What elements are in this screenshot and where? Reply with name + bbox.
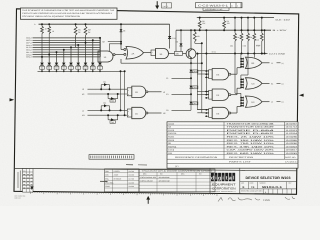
gate E4 (diode NAND): [197, 89, 231, 100]
input diode D2 tap: [47, 54, 52, 73]
diode D17 branch: [190, 94, 198, 110]
left fold-mark arrow: [10, 98, 15, 101]
wire 2A out to 3A: [144, 52, 152, 54]
gate E3 (diode NAND): [197, 69, 231, 80]
wire W1 emitter bus: [121, 59, 202, 63]
input diode D5 tap: [69, 46, 74, 72]
resistor R7 3.9K: [243, 17, 250, 55]
node +10V rail (right): [176, 29, 288, 32]
resistor R3 15K: [198, 17, 206, 32]
top fold-mark arrow: [155, 1, 159, 9]
diode D14 bypass: [100, 102, 110, 112]
input wire M1: [82, 114, 127, 117]
output wire L1: [262, 101, 284, 104]
wire vertical V5: [205, 29, 208, 94]
gate 1B (diode NAND): [127, 86, 148, 97]
gate 1A (diode NAND): [98, 51, 115, 62]
input wire E1: [166, 93, 192, 96]
handwritten note: [218, 197, 295, 203]
resistor R4 15K: [223, 17, 231, 32]
wire feed gate D3 cluster: [235, 54, 241, 98]
gate D3 (diode OR): [240, 96, 262, 107]
output wire N2: [148, 112, 165, 115]
wire 3A out to R9: [169, 52, 175, 54]
input wire L1: [82, 109, 127, 112]
junction dot GND: [261, 53, 263, 55]
gate 3A (diode NAND): [151, 49, 169, 59]
title block band: [14, 168, 297, 170]
wire Q1 collector to +10V: [190, 29, 192, 49]
input diode D7 tap: [83, 42, 88, 73]
input diode D6 tap: [76, 44, 81, 72]
contact strip caption: [126, 164, 147, 166]
margin scale ticks: [31, 191, 217, 196]
wire R9 to Q1 base: [183, 52, 187, 54]
parts list table: [167, 122, 298, 168]
wire Q1 emitter to W1: [190, 58, 192, 64]
wire vertical V3: [196, 53, 208, 110]
node +10V rail (upper left): [34, 23, 169, 26]
wire feed gate B3 cluster: [240, 54, 242, 59]
check mark: [100, 180, 108, 182]
wire vertical V2: [124, 70, 126, 116]
resistor R5 680: [230, 17, 236, 55]
input diode D4 tap: [61, 49, 66, 72]
wire 1A out to 2A in: [115, 54, 124, 56]
drafting sign-off block: [105, 169, 140, 192]
bus line pin labels: [26, 37, 32, 59]
sheet border frame: [14, 9, 299, 195]
wire E5 output: [231, 107, 241, 114]
resistor R12: [41, 23, 48, 57]
output wire L2: [148, 91, 165, 94]
input wire D1: [166, 109, 191, 112]
diode D16 bypass: [107, 93, 119, 103]
diode D13 bypass: [100, 80, 110, 90]
resistor R1: [74, 23, 81, 47]
diode D8: [120, 29, 126, 32]
diode D11 branch: [190, 78, 198, 94]
input wire F1: [166, 77, 192, 80]
wire common input bus W2: [38, 70, 125, 72]
title text block: [240, 169, 297, 194]
test point label: [212, 50, 217, 53]
input diode D3 tap: [54, 51, 59, 72]
gate B3 (diode OR): [240, 57, 262, 68]
gate E5 (diode NAND): [197, 107, 231, 118]
input diode D8 tap: [90, 39, 95, 72]
diode D12 feed: [168, 24, 176, 48]
input wire J2: [82, 88, 127, 91]
resistor R11: [193, 29, 201, 43]
diode D15 bypass: [107, 114, 119, 124]
resistor R2: [84, 23, 91, 42]
resistor R13: [48, 23, 55, 54]
margin vertical caption: [18, 171, 20, 191]
wire vertical V4: [201, 42, 209, 113]
wire E3 output: [231, 68, 241, 75]
gate 1D (diode NAND): [127, 107, 148, 118]
input diode D9 tap: [98, 37, 103, 72]
wire feed gate B3 top: [253, 54, 255, 58]
input bus lines: [33, 38, 101, 57]
output wire J1: [262, 62, 284, 65]
resistor R10 1.5K: [256, 17, 263, 55]
resistor R9 330: [175, 51, 183, 55]
top drawing number strip: [196, 3, 243, 11]
right fold-mark arrow: [299, 94, 304, 97]
node GND rail: [197, 53, 286, 56]
input diode D1 tap: [40, 56, 45, 72]
diode D9: [176, 29, 183, 51]
wire feed gate C3 cluster: [241, 54, 248, 80]
wire E4 output: [231, 88, 241, 95]
resistor R8 15K: [249, 17, 255, 55]
revision table: [23, 169, 34, 193]
bus termination column: [99, 38, 101, 57]
module contact pin strip: [89, 155, 134, 160]
wire branch to gate 1A: [109, 44, 121, 51]
transistor & diode conversion chart: [139, 169, 215, 192]
wire vertical V1: [120, 70, 122, 111]
bottom fold-mark arrow: [146, 196, 150, 204]
capacitor C1 branch: [256, 29, 266, 54]
form number footnote: [15, 195, 27, 200]
input wire K2: [82, 93, 127, 96]
gate C3 (diode OR): [240, 78, 262, 89]
gate 2A (NOR): [124, 47, 144, 60]
resistor R6 2.0K: [236, 17, 243, 55]
node -15V rail: [197, 18, 291, 22]
engineering note box: [21, 8, 118, 19]
output wire K1: [262, 82, 284, 85]
wire +10V rail drop: [175, 30, 177, 51]
sheet-of box: [162, 3, 172, 8]
revision stamp: [30, 186, 33, 190]
wire rail to gate 2A input: [120, 23, 124, 49]
transistor Q1: [186, 49, 199, 59]
input wire H2: [102, 41, 122, 44]
logo Digital Equipment Corporation: [210, 169, 240, 194]
diode D10 branch: [190, 63, 198, 78]
